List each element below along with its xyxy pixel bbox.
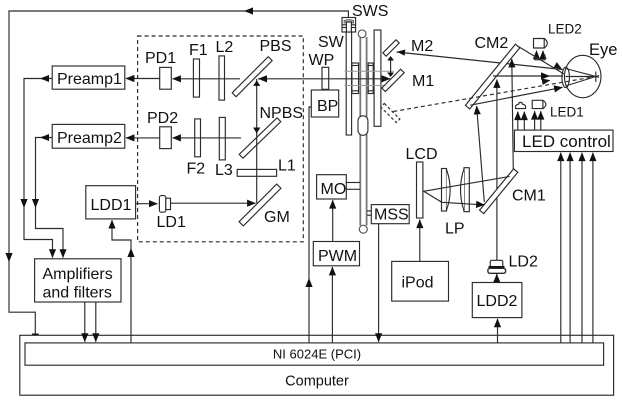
slit element A (352, 63, 359, 94)
mirror CM2 (465, 44, 519, 109)
element LD1 (159, 196, 165, 213)
box LED control (514, 130, 613, 151)
ray LCD to CM1 lower (424, 191, 485, 205)
lens LP right (464, 168, 469, 212)
right bar (374, 30, 381, 126)
rod with circles (scanning shaft) (360, 37, 366, 226)
element F1 (193, 59, 199, 97)
MO link double line to rod (346, 182, 360, 184)
element GM (239, 184, 281, 226)
double arrow M2-M1 (390, 60, 392, 74)
LED2 cup (535, 55, 545, 60)
SWS holder bracket (342, 18, 356, 33)
wire Preamp1 to Amplifiers (24, 79, 53, 258)
svg-text:LD1: LD1 (157, 214, 186, 231)
MSS link double line to rod (367, 210, 371, 212)
wires LED control to LED1 (4 short arrows) (517, 112, 519, 130)
box iPod (392, 261, 449, 301)
mirror M2 (383, 40, 399, 56)
wire MSS to NI (378, 224, 380, 342)
ray LCD to CM1 upper (424, 177, 510, 192)
svg-text:Preamp1: Preamp1 (57, 71, 122, 88)
main optical axis PBS to PD1 (173, 78, 241, 80)
svg-text:L1: L1 (278, 158, 296, 175)
svg-text:L2: L2 (216, 39, 234, 56)
svg-text:PWM: PWM (318, 248, 357, 265)
slit element B (368, 63, 373, 94)
beam CM2 to eye horizontal (493, 75, 563, 77)
svg-text:LDD1: LDD1 (91, 197, 132, 214)
dashed beam ghost mirror to eye (393, 77, 596, 112)
arrow axis into M1 (382, 75, 391, 82)
svg-text:CM2: CM2 (475, 35, 509, 52)
LED1 lamp symbol left (516, 103, 526, 109)
svg-text:M1: M1 (412, 73, 434, 90)
svg-text:NI 6024E (PCI): NI 6024E (PCI) (273, 347, 361, 362)
arrow left on top wire (244, 7, 253, 14)
element PD1 (160, 67, 172, 89)
svg-text:L3: L3 (215, 162, 233, 179)
ghost mirror dashed below M1 (381, 103, 400, 122)
wire MO to PWM (332, 200, 334, 241)
svg-text:PD1: PD1 (145, 50, 176, 67)
svg-text:LED1: LED1 (550, 105, 584, 120)
scanner assembly: SW bar (346, 22, 351, 135)
svg-text:iPod: iPod (402, 275, 434, 292)
svg-text:WP: WP (309, 52, 335, 69)
svg-text:Preamp2: Preamp2 (57, 130, 122, 147)
beam NPBS to PD2 (173, 137, 242, 139)
box Preamp1 (52, 66, 125, 89)
svg-text:M2: M2 (411, 38, 433, 55)
box BP (311, 90, 338, 117)
vertical beam GM-L1-NPBS-PBS (256, 79, 258, 203)
svg-text:LED2: LED2 (548, 22, 582, 37)
element F2 (195, 119, 201, 157)
arrow left into PBS on axis (258, 75, 267, 82)
wire NI to LDD2 (497, 319, 499, 343)
svg-text:F2: F2 (187, 161, 206, 178)
svg-text:F1: F1 (189, 42, 208, 59)
wire top feedback from SWS to left edge and down to NI (9, 11, 348, 342)
box MSS (371, 205, 409, 224)
svg-text:Eye: Eye (589, 41, 617, 59)
box LDD2 (472, 283, 522, 318)
wires LED2 pair arrows (536, 51, 538, 56)
beams CM1 to CM2 (477, 106, 485, 202)
element NPBS (239, 118, 281, 158)
mirror M1 (382, 69, 404, 91)
element WP (322, 67, 329, 89)
svg-text:LCD: LCD (406, 146, 438, 163)
svg-text:MSS: MSS (374, 207, 409, 224)
beam CM2 top to eye (518, 46, 565, 74)
beam CM2 bottom to eye (470, 87, 562, 105)
box PWM (313, 242, 359, 266)
wire LDD1 to LD1 (136, 203, 158, 205)
svg-text:LD2: LD2 (509, 254, 538, 271)
svg-text:MO: MO (321, 181, 347, 198)
svg-text:SW: SW (318, 34, 345, 51)
lens LP left (442, 169, 447, 212)
rod capsule carriage (358, 116, 368, 136)
box MO (317, 175, 347, 199)
svg-text:LDD2: LDD2 (477, 293, 518, 310)
wire PD2 to Preamp2 (126, 137, 160, 139)
arrow into eye lens top (554, 62, 563, 69)
wires LED control to NI (4 lines) (560, 153, 562, 343)
svg-text:Amplifiers: Amplifiers (43, 266, 113, 283)
wire Preamp2 to Amplifiers (36, 138, 64, 258)
dashed enclosure box (138, 36, 304, 242)
element L1 (horizontal lens) (237, 169, 276, 176)
wire LDD2 to LD2 (496, 274, 498, 283)
element PD2 (160, 127, 172, 149)
wire iPod to LCD (419, 220, 421, 262)
element LD2 (490, 260, 503, 267)
svg-text:Computer: Computer (285, 374, 349, 390)
svg-text:and filters: and filters (43, 285, 112, 302)
svg-text:NPBS: NPBS (260, 105, 304, 122)
box Amplifiers and filters (35, 259, 121, 302)
svg-text:PBS: PBS (260, 38, 292, 55)
svg-text:GM: GM (264, 209, 290, 226)
mirror CM1 (480, 169, 518, 214)
element L3 (219, 117, 225, 159)
eye lens (562, 67, 570, 87)
arrow down on left frame wire (5, 253, 12, 262)
wire BP to NI (309, 107, 311, 343)
element L2 (219, 56, 225, 100)
wire NI to LDD1 (112, 220, 131, 343)
box LDD1 (86, 186, 136, 219)
gray beams across scanner bars (345, 71, 395, 85)
svg-text:LED control: LED control (522, 132, 611, 151)
box NI 6024E (25, 343, 604, 365)
element LCD (417, 162, 423, 218)
element PBS (45deg plate) (232, 57, 272, 97)
svg-text:PD2: PD2 (147, 110, 178, 127)
wire PWM to NI (331, 267, 333, 343)
svg-text:CM1: CM1 (512, 188, 546, 205)
LED2 bullet symbol (534, 39, 548, 49)
eye circle (564, 55, 601, 97)
LED1 bullet symbol right (532, 100, 546, 108)
wire PD1 to Preamp1 (126, 78, 160, 80)
beam M2 to eye (397, 52, 563, 70)
svg-text:SWS: SWS (352, 3, 388, 20)
rays inside eye to retina (566, 69, 600, 78)
beam LD1 to GM (171, 202, 256, 204)
wire Amplifiers to NI (2 lines) (84, 302, 86, 342)
box Preamp2 (52, 124, 125, 148)
svg-text:LP: LP (445, 221, 465, 238)
box Computer (20, 335, 614, 395)
main optical axis PBS to M1 (258, 78, 390, 80)
svg-text:BP: BP (317, 98, 338, 115)
